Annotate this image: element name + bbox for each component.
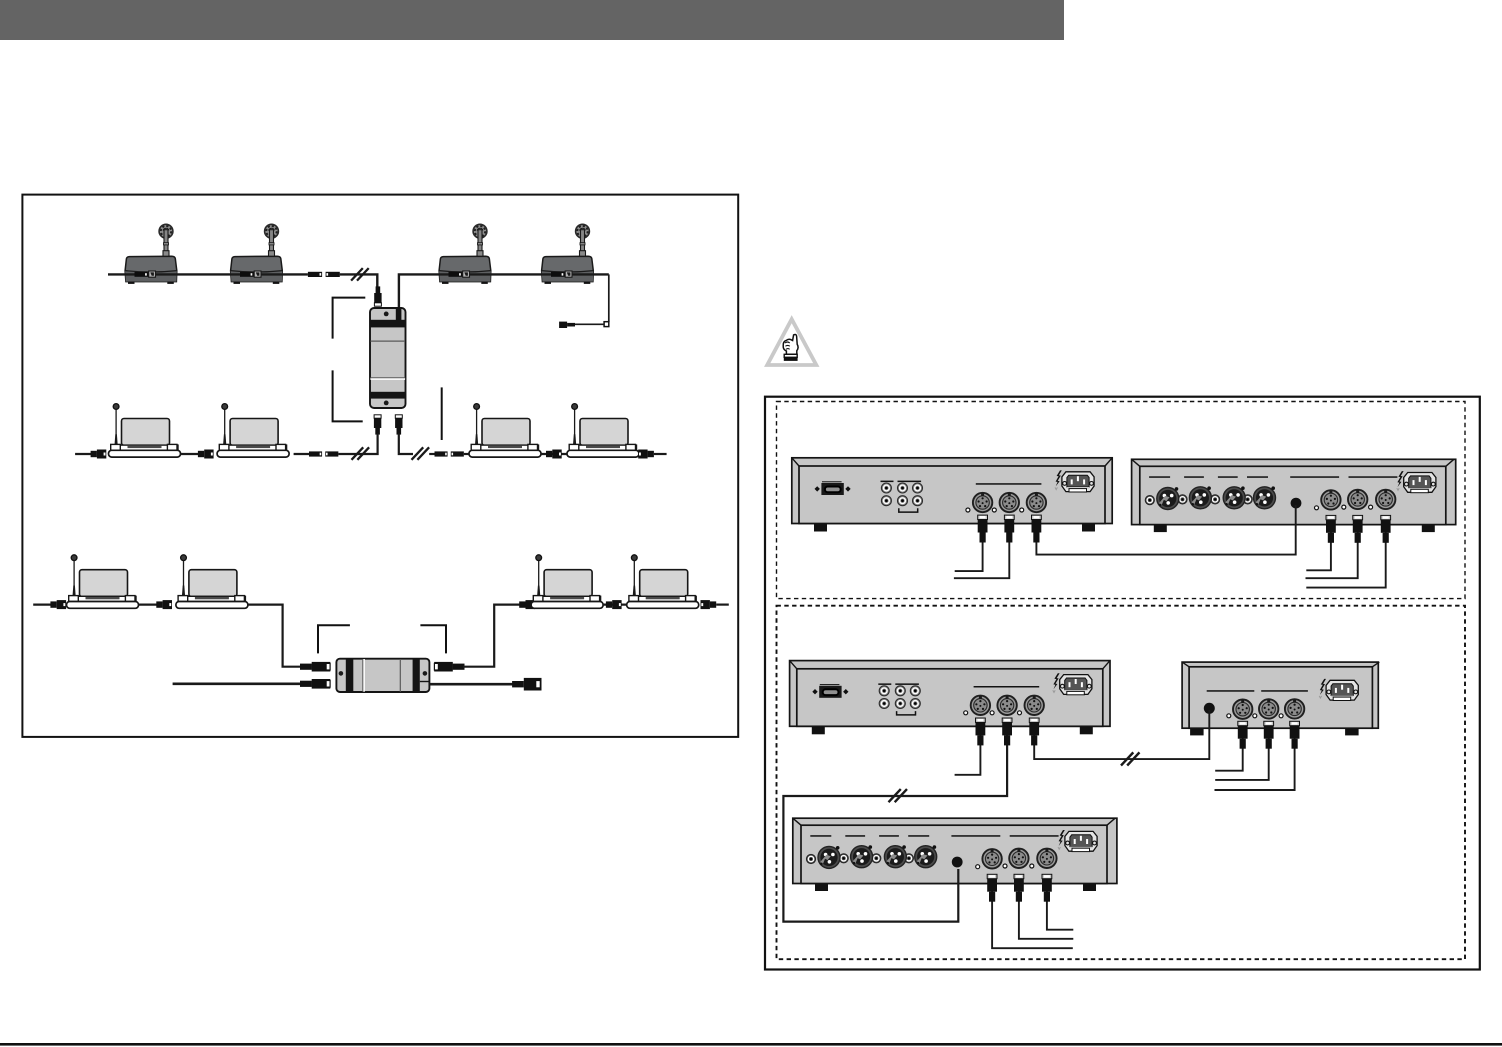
cable small din2 xyxy=(1215,731,1269,780)
wire extension to C3 riser xyxy=(463,605,521,667)
PSU bottom plug right xyxy=(395,415,402,435)
wire pair to PSU drop left xyxy=(338,434,377,455)
wire C2 down to extension input xyxy=(248,605,301,667)
plug out of extension top-right xyxy=(434,662,464,672)
link cable ccu1 to expander xyxy=(1036,505,1295,555)
dashed box: system 2 xyxy=(777,606,1466,960)
cable exp2 din2 xyxy=(1019,886,1073,939)
right figure outer frame xyxy=(765,397,1480,970)
row2 tail wire xyxy=(654,453,667,455)
light unit C1 xyxy=(67,555,139,609)
PSU bottom plug left xyxy=(374,415,381,435)
din plugs exp1 xyxy=(1326,515,1391,542)
light unit B3 xyxy=(469,404,541,458)
cable ccu1 din1 xyxy=(955,527,983,571)
extension trunk cable lower-left xyxy=(173,682,301,685)
plug into C3 xyxy=(519,600,535,609)
plug into extension bottom-left xyxy=(300,679,330,689)
cable break ccu2-loop xyxy=(889,789,907,802)
connector on unit A1 xyxy=(135,271,156,277)
connector on unit A4 xyxy=(551,271,572,277)
top gray header bar xyxy=(0,0,1064,40)
light unit B1 xyxy=(109,404,181,458)
wire trunk row1 left xyxy=(108,273,308,275)
note icon: triangle with pointing hand xyxy=(767,319,816,365)
callout bracket extension left xyxy=(318,625,350,653)
small interface unit xyxy=(1182,662,1379,735)
cable exp1 din2 xyxy=(1306,527,1358,578)
din plugs ccu1 xyxy=(978,515,1042,542)
wire trunk row1 right xyxy=(399,274,609,309)
termination plug wire xyxy=(575,323,604,325)
light unit C4 xyxy=(627,555,699,609)
cable exp2 din1 xyxy=(992,886,1073,948)
cable ccu2 din2 long loop xyxy=(783,729,1007,922)
dark unit A1 xyxy=(125,224,177,284)
din plugs exp2 xyxy=(987,874,1052,901)
end-of-line drop wire xyxy=(608,274,610,322)
wire break to pair xyxy=(429,453,436,455)
end socket xyxy=(604,322,609,327)
row3 tail wire xyxy=(716,603,729,605)
row2 tail plug xyxy=(638,450,654,459)
plug into extension top-left xyxy=(300,662,330,672)
cable exp1 din1 xyxy=(1306,527,1331,570)
left figure frame xyxy=(22,195,738,737)
expander unit 1 xyxy=(1132,459,1456,532)
trunk plug into power supply top xyxy=(374,286,381,306)
cable ccu2 din1 xyxy=(955,729,981,775)
link wire B1-B2 xyxy=(180,453,199,455)
light unit B2 xyxy=(217,404,289,458)
cable small din3 xyxy=(1215,731,1295,790)
cable break row2 right xyxy=(412,447,430,460)
dashed box: system 1 xyxy=(777,402,1466,599)
mating pair row2 right xyxy=(435,451,464,456)
bottom page rule xyxy=(0,1043,1502,1046)
wire row1 to trunk drop xyxy=(340,274,378,287)
callout bracket lower xyxy=(333,370,363,421)
plug between B3-B4 xyxy=(541,450,568,459)
cable break ccu2-small xyxy=(1121,752,1139,765)
callout bracket extension right xyxy=(420,625,446,653)
cable small din1 xyxy=(1215,731,1243,771)
cable break row1 xyxy=(351,268,369,281)
wire B2 to pair xyxy=(294,453,312,455)
pc cable plug xyxy=(512,678,541,691)
din plugs small unit xyxy=(1238,721,1300,748)
dark unit A3 xyxy=(439,224,491,284)
callout bracket upper xyxy=(333,298,366,339)
extension pc cable bottom-right xyxy=(429,683,513,686)
expander unit 2 xyxy=(793,818,1117,891)
wire pair to B3 xyxy=(464,453,470,455)
cable exp1 din3 xyxy=(1306,527,1385,588)
central control unit 2 xyxy=(790,661,1110,735)
cable ccu2 din3 to small unit xyxy=(1034,710,1209,759)
mating pair row2 left xyxy=(309,451,338,456)
din plugs ccu2 xyxy=(976,718,1040,745)
connector on unit A2 xyxy=(240,271,261,277)
light unit C2 xyxy=(176,555,248,609)
cable exp2 din3 xyxy=(1047,886,1073,930)
PSU drop right to bus xyxy=(399,434,413,455)
row2 bus left xyxy=(75,453,92,455)
leader line xyxy=(441,387,443,440)
row3 tail plug xyxy=(701,600,717,609)
mating connector pair row1 xyxy=(308,272,340,277)
cable ccu1 din2 xyxy=(954,527,1009,578)
row3 head wire xyxy=(33,603,52,605)
connector on unit A3 xyxy=(449,271,470,277)
link C3-C4 xyxy=(603,600,627,609)
cable break row2 left xyxy=(352,447,370,460)
dark unit A4 xyxy=(542,224,594,284)
plug into B2 xyxy=(198,450,214,459)
termination plug xyxy=(559,322,575,328)
extension splitter unit xyxy=(336,659,429,692)
plug into C1 xyxy=(50,600,66,609)
central control unit 1 xyxy=(792,458,1112,532)
dark unit A2 xyxy=(231,224,283,284)
plug into B1 xyxy=(91,450,107,459)
light unit B4 xyxy=(567,404,639,458)
light unit C3 xyxy=(531,555,603,609)
link C1-C2 xyxy=(138,600,172,609)
